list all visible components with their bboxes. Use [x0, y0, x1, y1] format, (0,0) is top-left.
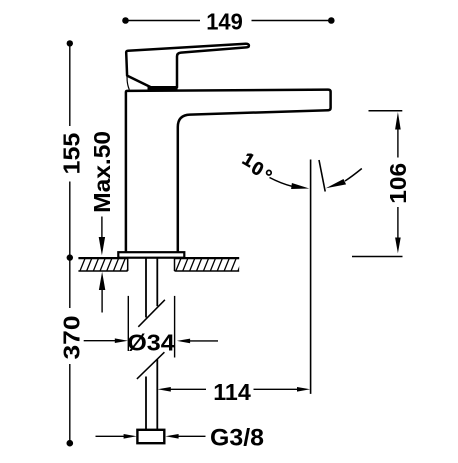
dimension O34 [84, 296, 218, 358]
dimension G3/8 [96, 425, 265, 452]
10 degree vertical reference line [310, 160, 312, 394]
dimension 114 [158, 379, 311, 405]
svg-text:Ø34: Ø34 [127, 329, 175, 355]
G3/8 fitting [137, 430, 164, 443]
10 degree label [239, 148, 271, 180]
10 degree tilted line [319, 160, 325, 192]
pipe break slash upper [138, 300, 165, 327]
faucet body and spout [126, 90, 331, 253]
countertop right band [175, 258, 244, 272]
svg-text:155: 155 [59, 133, 85, 175]
svg-text:149: 149 [206, 9, 243, 35]
supply pipe right [156, 258, 158, 307]
base plate [118, 252, 184, 258]
dimension Max.50 [89, 131, 115, 313]
svg-text:106: 106 [385, 163, 411, 204]
10 degree right arc arrow [326, 169, 362, 189]
supply pipe left [145, 258, 147, 318]
handle pivot curve [127, 76, 129, 90]
svg-text:G3/8: G3/8 [210, 425, 264, 452]
svg-text:Max.50: Max.50 [89, 131, 115, 213]
handle base thick line [148, 87, 178, 90]
countertop left band [78, 258, 132, 272]
dimension 106 right [352, 111, 411, 257]
faucet handle lever [126, 44, 249, 87]
dimension 149 top [122, 9, 334, 35]
svg-text:114: 114 [213, 379, 251, 405]
dimension 155 / 370 left line [59, 40, 85, 446]
10 degree left arc arrow [270, 178, 310, 190]
pipe break slash lower [137, 352, 165, 379]
svg-text:370: 370 [59, 316, 85, 360]
